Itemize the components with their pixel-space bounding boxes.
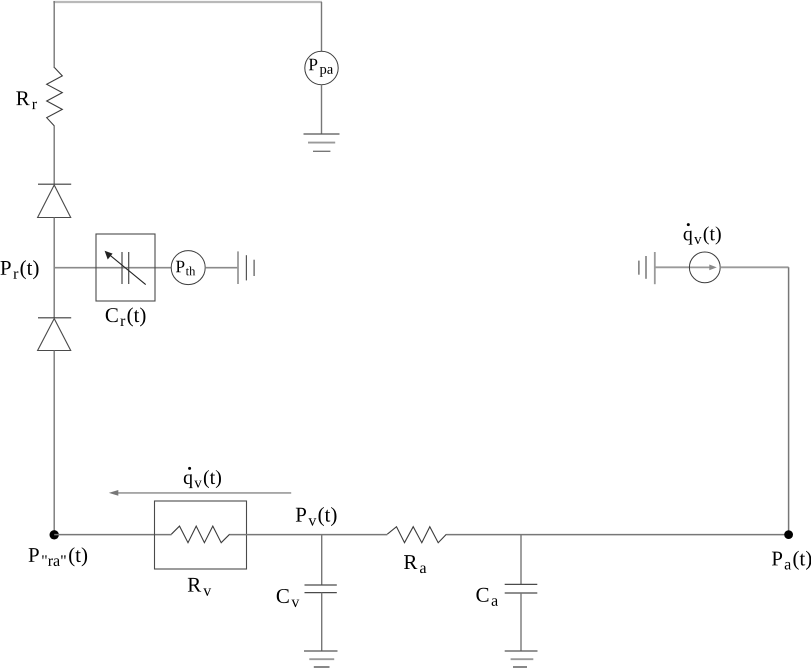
wire source to corner [720,266,788,268]
wire P_th to ground [205,267,238,269]
resistor R_a zigzag [387,527,446,543]
diode D2 [38,318,72,351]
wire C_v to ground [321,593,323,651]
wire P_v down [321,535,323,585]
diode D1 [38,184,72,217]
resistor R_v box [155,501,247,569]
ground C_a [505,651,538,667]
wire right vertical [788,267,790,534]
label P_th [176,261,195,276]
wire top horizontal [53,1,322,3]
wire P_pa to ground [321,85,323,134]
node P_ra dot [50,530,59,539]
resistor R1 zigzag [47,68,63,127]
wire C_a to ground [520,593,522,651]
label P_r(t) [1,260,39,279]
label P_a(t) [772,551,811,570]
label P_pa [309,59,333,77]
label qdot_v(t) arrow [184,467,221,488]
label R_a [404,555,426,573]
wire C_a junction down [520,535,522,585]
source Q1 flow circle [689,252,720,283]
label qdot_v(t) top [684,223,721,244]
wire P_pa vertical [321,2,323,52]
label R_v [188,578,211,596]
label P_ra(t) [29,547,88,566]
ground C_v [304,651,338,667]
ground sideways right [639,252,655,284]
wire R1 to D1 [53,126,55,184]
wire D2 to node [53,351,55,535]
wire R_a to node P_a [446,534,788,536]
label P_v(t) [296,507,337,526]
capacitor C_v [305,585,337,593]
label C_a [476,588,498,606]
meter P_pa circle [305,51,338,84]
ground P_pa [304,134,340,151]
label C_r(t) [106,307,146,326]
wire left vertical top [53,1,55,68]
label R_r [16,91,37,109]
label C_v [277,589,300,607]
capacitor C_a [505,584,538,593]
wire node Pr horizontal [54,267,171,269]
wire node to R_v [54,534,171,536]
wire ground to source [655,266,690,268]
node P_a dot [784,530,793,539]
flow arrow qdot_v [109,490,291,496]
ground sideways left [238,251,254,284]
wire D1 to D2 [53,218,55,319]
capacitor C_r(t) variable box [96,234,155,301]
wire R_v to R_a [230,534,388,536]
meter P_th circle [171,251,205,285]
